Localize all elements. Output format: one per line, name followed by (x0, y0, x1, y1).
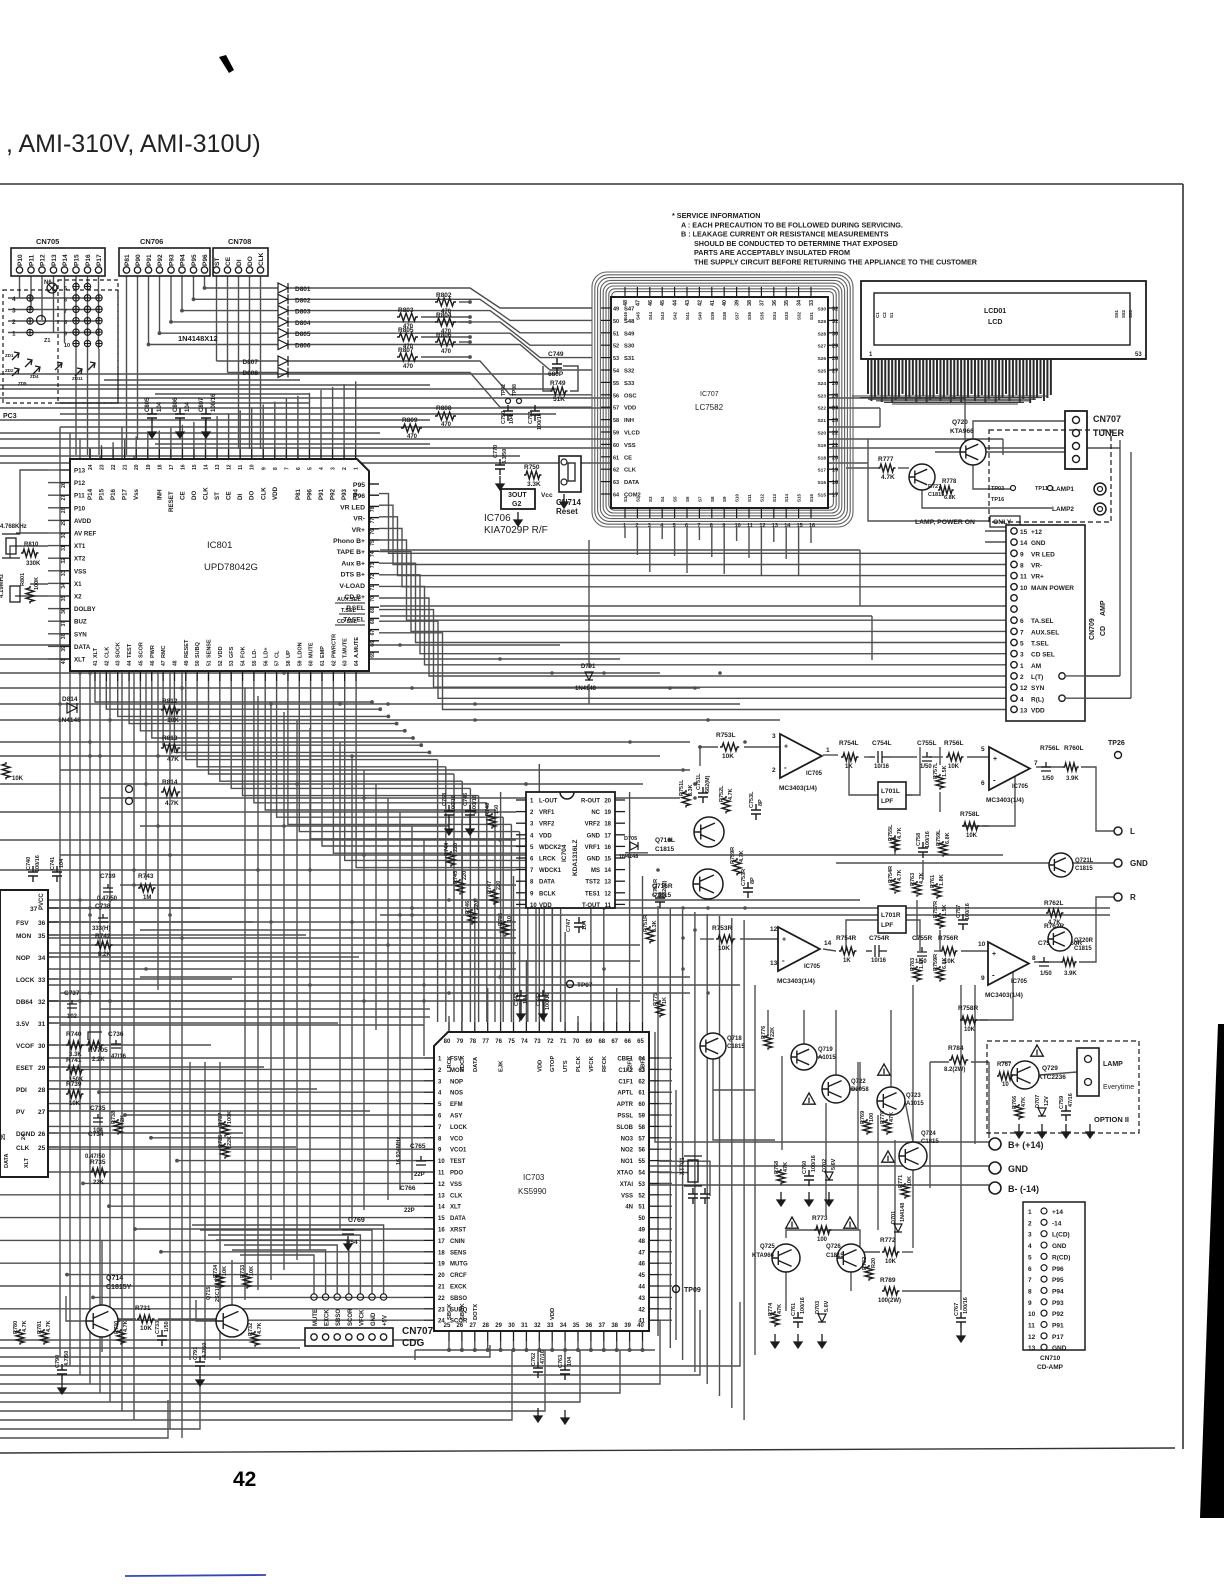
svg-text:TEST: TEST (127, 643, 133, 658)
wire (414, 1350, 416, 1360)
resistor R775 1K (656, 1000, 664, 1017)
svg-text:P11: P11 (74, 493, 85, 500)
svg-text:26: 26 (832, 381, 838, 387)
wire CN708 drop (216, 273, 218, 361)
svg-text:73: 73 (534, 1039, 541, 1045)
wire (922, 860, 924, 880)
svg-text:VSS: VSS (621, 1193, 633, 1199)
wire matrix row (8, 297, 99, 299)
wire bus center (60, 1024, 424, 1026)
svg-text:74: 74 (521, 1039, 528, 1045)
svg-text:DOLBY: DOLBY (74, 606, 97, 613)
frame top border (0, 183, 1183, 185)
wire IC703 right stub (659, 1205, 672, 1207)
resistor R769 100 (863, 1119, 871, 1135)
wire bus center (0, 1000, 640, 1002)
wire vertical bus right (706, 914, 708, 1384)
svg-text:23: 23 (100, 464, 106, 470)
wire vertical power (912, 985, 914, 1142)
svg-text:CN708: CN708 (228, 237, 251, 246)
svg-text:40: 40 (722, 300, 728, 306)
svg-text:3: 3 (772, 733, 776, 740)
capacitor C753R 8P (743, 882, 753, 898)
svg-text:32: 32 (61, 558, 67, 564)
wire IC703 right stub (659, 1160, 672, 1162)
svg-text:P96: P96 (306, 488, 313, 500)
wire vertical bus left (109, 463, 111, 1402)
wire bus top (0, 455, 520, 457)
svg-text:13: 13 (1028, 1345, 1036, 1352)
svg-text:1.8K: 1.8K (919, 957, 925, 969)
zener diodes row (12, 352, 19, 360)
wire IC801 top riser (158, 431, 160, 449)
svg-text:12V: 12V (1044, 1096, 1050, 1106)
svg-text:65: 65 (637, 1039, 644, 1045)
wire CN705 drop (64, 273, 66, 343)
svg-text:R742: R742 (95, 933, 111, 940)
wire IC801 top riser (320, 390, 322, 449)
svg-text:R755L: R755L (888, 824, 894, 841)
svg-text:IC705: IC705 (1011, 979, 1028, 985)
wire (659, 1172, 688, 1174)
svg-text:C1815: C1815 (727, 1044, 745, 1050)
wire vertical bus right (719, 916, 721, 1396)
svg-text:682(M): 682(M) (662, 880, 668, 898)
svg-text:R767: R767 (997, 1062, 1012, 1068)
svg-text:ST: ST (214, 258, 221, 266)
svg-text:C751: C751 (528, 411, 534, 424)
wire IC801 left stub (48, 633, 60, 635)
svg-text:48: 48 (638, 1239, 645, 1245)
wire IC801 bottom net (118, 681, 389, 716)
svg-text:CN706: CN706 (140, 237, 163, 246)
wire out R (1079, 897, 1114, 962)
svg-text:VR LED: VR LED (340, 504, 365, 511)
svg-text:S35: S35 (759, 311, 764, 320)
wire IC702 net (58, 978, 232, 980)
resistor R738 2K (114, 1119, 122, 1135)
wire bus center (140, 825, 449, 827)
svg-text:5: 5 (1020, 641, 1024, 648)
svg-text:LAMP2: LAMP2 (1052, 506, 1074, 513)
IC703 pin 55 NO1 (649, 1160, 659, 1162)
resistor R766 47K (1015, 1104, 1023, 1120)
svg-text:470: 470 (441, 422, 452, 428)
wire diode row (160, 332, 278, 334)
wire vertical power (877, 1115, 879, 1230)
wire bus bottom loop (0, 1350, 512, 1420)
IC801 top pins (89, 449, 91, 459)
svg-text:P17: P17 (96, 254, 103, 266)
svg-text:52: 52 (218, 660, 224, 666)
svg-text:-: - (992, 970, 995, 979)
wire IC707 drop (661, 527, 663, 539)
svg-text:45: 45 (660, 300, 666, 306)
svg-text:D804: D804 (295, 320, 311, 327)
svg-text:R-OUT: R-OUT (581, 799, 600, 805)
svg-text:26: 26 (457, 1323, 464, 1329)
svg-text:ESET: ESET (16, 1065, 33, 1072)
key matrix left switches (27, 295, 33, 301)
wire IC801-CN709 net (379, 586, 1010, 664)
svg-text:R769: R769 (860, 1111, 866, 1124)
wire (961, 950, 988, 952)
warning triangle D (786, 1217, 799, 1228)
svg-text:C751L: C751L (696, 773, 702, 790)
svg-text:16: 16 (180, 464, 186, 470)
wire vertical to IC703 (494, 810, 496, 1022)
wire bus mid (0, 703, 740, 705)
svg-text:58: 58 (638, 1125, 645, 1131)
svg-text:P91: P91 (146, 254, 153, 266)
wire IC703 left net (161, 1251, 424, 1253)
svg-text:KDA1316LZ: KDA1316LZ (572, 839, 579, 876)
svg-text:15: 15 (438, 1216, 445, 1222)
transistor Q719 A1015 (791, 1044, 817, 1070)
testpoint TP08 (517, 399, 522, 404)
svg-text:D2058: D2058 (851, 1087, 869, 1093)
svg-text:42: 42 (697, 300, 703, 306)
wire vertical (270, 704, 272, 1280)
svg-text:DO: DO (247, 256, 254, 266)
svg-text:4: 4 (12, 296, 16, 303)
svg-text:C754L: C754L (872, 740, 892, 747)
svg-text:GND: GND (1031, 540, 1046, 547)
IC704 pin 8 DATA (516, 880, 526, 882)
svg-text:76: 76 (495, 1039, 502, 1045)
svg-text:S45: S45 (635, 311, 640, 320)
wire IC801 top riser (181, 425, 183, 449)
wire (588, 684, 590, 704)
wire IC702 net (58, 921, 253, 923)
svg-text:L: L (1130, 827, 1135, 836)
svg-text:CLK: CLK (203, 487, 210, 500)
svg-text:44: 44 (673, 299, 679, 306)
svg-text:C765: C765 (410, 1143, 426, 1150)
svg-text:16.934MHz: 16.934MHz (396, 1137, 402, 1165)
wire IC703 right stub (659, 1171, 672, 1173)
ground cluster1 (777, 1192, 785, 1206)
svg-text:Q726: Q726 (826, 1244, 841, 1250)
svg-text:6: 6 (981, 780, 985, 787)
svg-text:47/16: 47/16 (1068, 1093, 1074, 1107)
svg-text:R773: R773 (812, 1215, 828, 1222)
wire bus top (0, 419, 430, 421)
wire IC702 net (58, 1022, 338, 1024)
svg-text:15: 15 (192, 464, 198, 470)
wire IC801 top riser (89, 448, 91, 449)
wire IC801 top riser (101, 445, 103, 449)
svg-text:C1815: C1815 (921, 1139, 939, 1145)
svg-text:76: 76 (370, 529, 376, 535)
wire resistor link (421, 336, 470, 338)
wire CDG riser (240, 1255, 314, 1294)
svg-text:220: 220 (462, 871, 468, 880)
svg-text:R737: R737 (218, 1113, 224, 1126)
wire bus top (0, 373, 556, 375)
wire vertical (754, 985, 756, 1355)
CN707 CDG pin SCOR (346, 1334, 352, 1340)
svg-text:B : LEAKAGE CURRENT OR RESISTA: B : LEAKAGE CURRENT OR RESISTANCE MEASUR… (681, 230, 889, 239)
IC703 pin 7 LOCK (424, 1125, 434, 1127)
svg-text:7: 7 (64, 309, 67, 315)
svg-text:Q724: Q724 (921, 1131, 936, 1137)
CN709 pin 4 R(L) (1011, 695, 1017, 701)
wire vertical bus right (669, 908, 671, 1348)
svg-text:S40: S40 (697, 311, 702, 320)
svg-text:TA.SEL: TA.SEL (1031, 618, 1054, 625)
svg-text:1N4148X12: 1N4148X12 (178, 334, 218, 343)
wire vertical (399, 812, 401, 1190)
svg-text:R740: R740 (66, 1031, 82, 1038)
svg-text:P15: P15 (74, 254, 81, 266)
svg-text:VSS: VSS (624, 443, 636, 449)
IC702 pin 36 FSV (48, 921, 58, 923)
resistor R748 150 (488, 813, 496, 829)
svg-text:C2: C2 (882, 312, 887, 318)
svg-text:4.768KHz: 4.768KHz (0, 524, 27, 530)
svg-text:D801: D801 (295, 286, 311, 293)
wire vertical power (803, 1010, 805, 1044)
wire IC703 right stub (659, 1057, 672, 1059)
svg-text:19: 19 (832, 468, 838, 474)
svg-text:32: 32 (534, 1323, 541, 1329)
LCD comb bottom bundle (852, 395, 1048, 397)
svg-text:71: 71 (560, 1039, 567, 1045)
wire IC702 net (58, 1044, 211, 1046)
svg-text:61: 61 (638, 1091, 645, 1097)
svg-text:36: 36 (772, 300, 778, 306)
wire IC703 left net (0, 1148, 424, 1150)
wire vertical (339, 742, 341, 1230)
wire vertical bus left (121, 427, 123, 1411)
wire (713, 1059, 755, 1090)
IC704 pin 1 L-OUT (516, 799, 526, 801)
svg-text:37: 37 (598, 1323, 605, 1329)
wire vertical (363, 770, 365, 1210)
svg-text:TP08: TP08 (512, 384, 518, 396)
svg-text:104: 104 (582, 920, 588, 930)
wire bus long (380, 914, 1110, 916)
svg-text:THE SUPPLY CIRCUIT BEFORE RETU: THE SUPPLY CIRCUIT BEFORE RETURNING THE … (694, 258, 978, 267)
wire bus top (0, 438, 1003, 440)
IC703 pin 16 XRST (424, 1228, 434, 1230)
wire CN708 drop (238, 273, 240, 449)
svg-text:VDD: VDD (272, 486, 279, 500)
capacitor C751R 682 (655, 892, 665, 908)
wire bus (0, 1339, 420, 1341)
wire D808 row (228, 372, 279, 374)
svg-text:S30: S30 (624, 344, 634, 350)
svg-text:17: 17 (438, 1239, 445, 1245)
svg-text:C751R: C751R (653, 879, 659, 896)
svg-text:75: 75 (370, 540, 376, 546)
svg-text:S18: S18 (817, 455, 826, 461)
wire (1036, 766, 1063, 768)
svg-text:S47: S47 (624, 307, 634, 313)
wire (894, 835, 896, 855)
svg-text:* SERVICE INFORMATION: * SERVICE INFORMATION (672, 211, 760, 220)
svg-text:682(M): 682(M) (705, 775, 711, 793)
svg-text:XT1: XT1 (74, 543, 86, 550)
svg-text:LD+: LD+ (263, 647, 269, 658)
svg-text:P92: P92 (157, 254, 164, 266)
svg-text:470: 470 (407, 434, 418, 440)
svg-text:14: 14 (604, 868, 611, 874)
wire vertical bus left (69, 433, 71, 1366)
wire IC801 bottom net (277, 681, 504, 817)
svg-text:P95: P95 (1052, 1277, 1064, 1284)
svg-text:5: 5 (64, 286, 67, 292)
svg-text:S38: S38 (722, 311, 727, 320)
wire diode net (288, 311, 592, 333)
svg-text:ST: ST (214, 492, 221, 500)
IC703 pin 5 EFM (424, 1103, 434, 1105)
capacitor C751 100/16 (530, 405, 540, 421)
transistor Q721L C1815 (1049, 853, 1073, 877)
wire (30, 583, 48, 585)
svg-text:42: 42 (233, 1468, 256, 1491)
wire IC801 left stub (48, 545, 60, 547)
svg-text:R757L: R757L (933, 762, 939, 779)
svg-text:Q729: Q729 (1042, 1065, 1058, 1072)
wire (1039, 1072, 1077, 1075)
wire IC703 bottom drop (487, 1341, 489, 1350)
svg-text:CN707: CN707 (402, 1326, 434, 1337)
IC704 pin 20 R-OUT (615, 799, 625, 801)
svg-text:34: 34 (38, 955, 46, 962)
IC703 top pins (448, 1022, 450, 1032)
wire IC801 bottom net (174, 681, 429, 752)
wire bus top (155, 443, 430, 445)
IC703 pin 19 MUTG (424, 1262, 434, 1264)
wire bus (0, 1347, 300, 1349)
svg-text:R752L: R752L (719, 785, 725, 802)
svg-text:AUX.SEL: AUX.SEL (337, 597, 361, 603)
wire IC703 right stub (659, 1103, 672, 1105)
svg-text:EXCK: EXCK (450, 1285, 467, 1291)
svg-text:EJK: EJK (499, 1060, 505, 1072)
svg-text:ZD5: ZD5 (18, 381, 27, 386)
svg-text:DOTX: DOTX (473, 1304, 479, 1320)
wire (158, 1318, 216, 1320)
IC703 pin 59 PSSL (649, 1114, 659, 1116)
svg-text:12: 12 (438, 1182, 445, 1188)
wire (740, 938, 778, 940)
wire IC707 drop (636, 527, 638, 555)
transistor Q725 KTA966 (772, 1244, 800, 1272)
svg-text:1: 1 (354, 467, 360, 470)
IC704 pin 6 LRCK (516, 857, 526, 859)
wire B+ left (655, 1032, 989, 1142)
svg-text:R747: R747 (487, 881, 493, 894)
svg-text:1N4148: 1N4148 (900, 1203, 906, 1222)
svg-text:C755L: C755L (917, 740, 937, 747)
resistor R780 4.7K (16, 1329, 24, 1345)
svg-text:10: 10 (438, 1159, 445, 1165)
svg-text:333(H): 333(H) (92, 926, 110, 932)
svg-text:30: 30 (38, 1043, 46, 1050)
wire IC707 drop (711, 527, 713, 557)
svg-text:D807: D807 (242, 359, 258, 366)
svg-text:77: 77 (370, 518, 376, 524)
svg-text:+12: +12 (1031, 529, 1042, 536)
svg-text:SBOK: SBOK (460, 1302, 466, 1320)
capacitor C760 100/16 (804, 1170, 814, 1186)
svg-text:UP: UP (286, 650, 292, 658)
svg-text:30: 30 (508, 1323, 515, 1329)
wire vertical bus right (694, 912, 696, 1372)
svg-text:Aux B+: Aux B+ (341, 560, 365, 567)
wire C763 feed (564, 1350, 566, 1364)
svg-text:VRF2: VRF2 (539, 822, 555, 828)
svg-text:R753L: R753L (716, 732, 736, 739)
svg-text:DO: DO (191, 491, 198, 500)
svg-text:R745: R745 (453, 871, 459, 884)
svg-text:15: 15 (604, 857, 611, 863)
blue mark bottom (125, 1575, 266, 1576)
wire IC702 net (58, 1088, 317, 1090)
wire diode net (288, 288, 592, 308)
svg-text:2: 2 (12, 319, 16, 326)
wire IC707 drop (798, 527, 800, 576)
svg-text:NO3: NO3 (621, 1136, 634, 1142)
svg-text:5.6V: 5.6V (831, 1158, 837, 1170)
svg-text:+: + (993, 756, 997, 763)
wire diode row (171, 321, 278, 323)
svg-text:P16: P16 (85, 254, 92, 266)
wire vertical to IC703 (502, 817, 504, 1022)
svg-text:13: 13 (604, 880, 611, 886)
svg-text:69: 69 (370, 607, 376, 613)
diode D806 (278, 340, 288, 350)
IC703 pin 62 C1F1 (649, 1080, 659, 1082)
diode D805 (278, 328, 288, 338)
svg-text:D701: D701 (891, 1211, 897, 1224)
svg-text:VDD: VDD (539, 833, 552, 839)
wire IC801 left stub (48, 658, 60, 660)
IC707 right pins (828, 307, 838, 309)
svg-text:S28: S28 (817, 331, 826, 337)
svg-text:11: 11 (747, 523, 753, 529)
svg-text:35: 35 (38, 933, 46, 940)
svg-text:S20: S20 (817, 431, 826, 437)
svg-text:C754R: C754R (869, 935, 890, 942)
wire IC801 left stub (48, 645, 60, 647)
svg-text:P12: P12 (40, 254, 47, 266)
svg-text:D808: D808 (242, 370, 258, 377)
IC703 pin 3 NOP (424, 1080, 434, 1082)
svg-text:37: 37 (30, 906, 38, 913)
svg-text:R772: R772 (880, 1237, 896, 1244)
svg-text:R775: R775 (653, 993, 659, 1006)
wire vertical XT (675, 1090, 677, 1340)
svg-text:R748: R748 (485, 803, 491, 816)
svg-text:10: 10 (250, 464, 256, 470)
svg-text:S15: S15 (817, 493, 826, 499)
svg-text:LPF: LPF (881, 922, 893, 929)
terminal B+ (989, 1138, 1001, 1150)
svg-text:104: 104 (509, 414, 515, 424)
wire (16, 532, 48, 534)
connector CN707 CDG box (305, 1328, 393, 1346)
svg-text:-: - (782, 956, 785, 965)
svg-text:AMP: AMP (1100, 600, 1107, 616)
warning triangle A (878, 1064, 891, 1075)
CN709 pin 15 +12 (1011, 528, 1017, 534)
wire Q714 base (66, 1296, 86, 1321)
svg-text:4.7K: 4.7K (22, 1320, 28, 1332)
